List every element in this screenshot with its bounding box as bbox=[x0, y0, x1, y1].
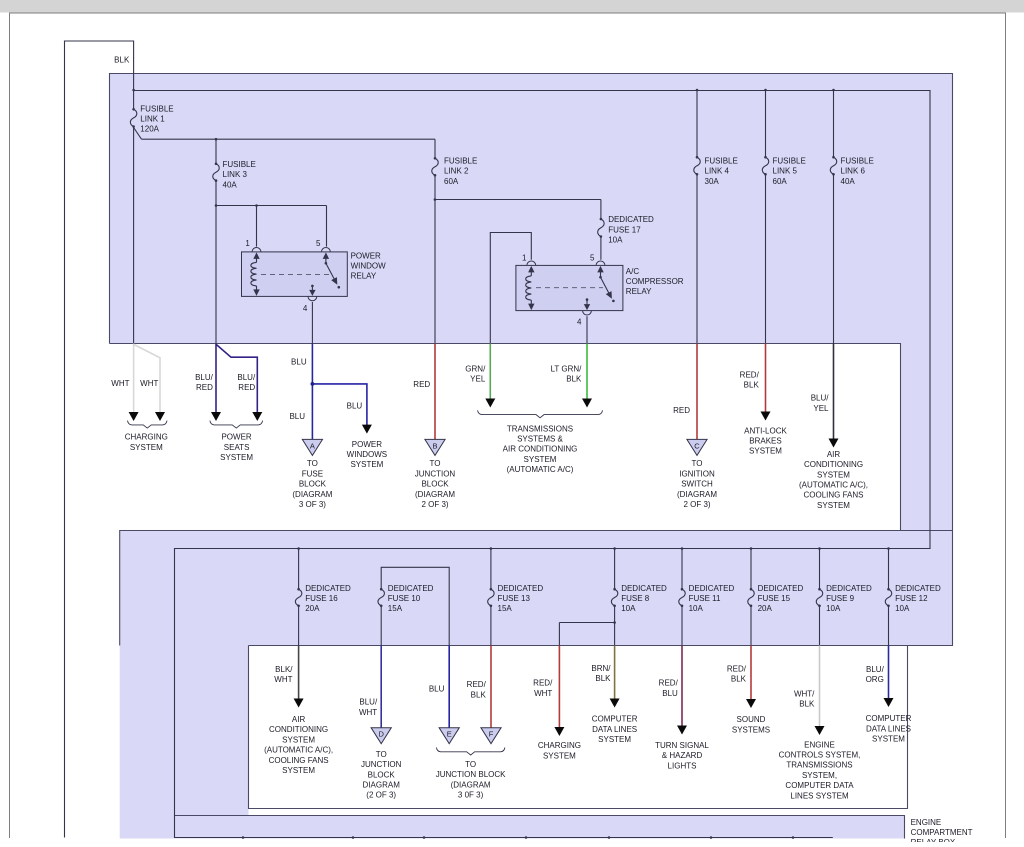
svg-text:SYSTEM: SYSTEM bbox=[220, 453, 253, 462]
svg-text:BLK: BLK bbox=[566, 375, 582, 384]
svg-text:5: 5 bbox=[590, 253, 595, 262]
svg-text:BLK/: BLK/ bbox=[275, 665, 293, 674]
svg-text:120A: 120A bbox=[140, 125, 159, 134]
svg-text:FUSE 16: FUSE 16 bbox=[305, 594, 338, 603]
svg-text:LINK 6: LINK 6 bbox=[841, 167, 866, 176]
svg-text:RED: RED bbox=[673, 406, 690, 415]
svg-text:BLK: BLK bbox=[595, 674, 611, 683]
svg-text:FUSE 12: FUSE 12 bbox=[895, 594, 928, 603]
svg-text:FUSE 10: FUSE 10 bbox=[388, 594, 421, 603]
svg-text:FUSE 9: FUSE 9 bbox=[826, 594, 855, 603]
svg-text:CHARGING: CHARGING bbox=[538, 741, 581, 750]
svg-text:WHT: WHT bbox=[534, 689, 552, 698]
svg-text:WHT/: WHT/ bbox=[794, 689, 815, 698]
svg-text:IGNITION: IGNITION bbox=[679, 469, 715, 478]
svg-text:4: 4 bbox=[303, 304, 308, 313]
svg-text:A/C: A/C bbox=[626, 267, 640, 276]
svg-text:10A: 10A bbox=[689, 604, 704, 613]
svg-text:AIR: AIR bbox=[292, 715, 306, 724]
svg-text:(AUTOMATIC A/C),: (AUTOMATIC A/C), bbox=[264, 746, 333, 755]
svg-text:FUSE 11: FUSE 11 bbox=[689, 594, 721, 603]
svg-text:FUSE: FUSE bbox=[302, 469, 323, 478]
svg-text:40A: 40A bbox=[223, 180, 238, 189]
svg-text:CONDITIONING: CONDITIONING bbox=[804, 460, 863, 469]
svg-text:DEDICATED: DEDICATED bbox=[895, 584, 941, 593]
svg-text:(DIAGRAM: (DIAGRAM bbox=[415, 490, 455, 499]
svg-text:RED/: RED/ bbox=[467, 680, 487, 689]
svg-text:RED/: RED/ bbox=[533, 679, 553, 688]
svg-text:FUSIBLE: FUSIBLE bbox=[773, 156, 806, 165]
svg-text:SYSTEM: SYSTEM bbox=[282, 766, 315, 775]
svg-text:LINK 4: LINK 4 bbox=[705, 167, 730, 176]
svg-text:(AUTOMATIC A/C): (AUTOMATIC A/C) bbox=[507, 465, 574, 474]
svg-text:1: 1 bbox=[245, 239, 250, 248]
svg-text:BLK: BLK bbox=[471, 690, 487, 699]
svg-text:SYSTEM: SYSTEM bbox=[350, 460, 383, 469]
svg-text:WINDOWS: WINDOWS bbox=[347, 450, 387, 459]
svg-text:DEDICATED: DEDICATED bbox=[689, 584, 735, 593]
svg-text:DEDICATED: DEDICATED bbox=[388, 584, 434, 593]
svg-text:BLU: BLU bbox=[291, 358, 307, 367]
svg-text:DEDICATED: DEDICATED bbox=[608, 215, 654, 224]
svg-text:15A: 15A bbox=[388, 604, 403, 613]
svg-text:WHT: WHT bbox=[274, 675, 292, 684]
svg-text:BLU/: BLU/ bbox=[359, 698, 378, 707]
svg-text:JUNCTION: JUNCTION bbox=[415, 469, 456, 478]
svg-text:FUSIBLE: FUSIBLE bbox=[841, 156, 874, 165]
svg-text:DEDICATED: DEDICATED bbox=[621, 584, 667, 593]
svg-text:(DIAGRAM: (DIAGRAM bbox=[451, 780, 491, 789]
svg-text:TO: TO bbox=[430, 459, 441, 468]
svg-text:CHARGING: CHARGING bbox=[125, 433, 168, 442]
svg-text:BLU/: BLU/ bbox=[195, 373, 214, 382]
svg-text:AIR CONDITIONING: AIR CONDITIONING bbox=[503, 445, 578, 454]
svg-text:4: 4 bbox=[577, 317, 582, 326]
svg-text:TURN SIGNAL: TURN SIGNAL bbox=[655, 741, 709, 750]
svg-text:SYSTEMS &: SYSTEMS & bbox=[517, 435, 563, 444]
svg-text:10A: 10A bbox=[826, 604, 841, 613]
svg-text:10A: 10A bbox=[895, 604, 910, 613]
svg-text:RELAY BOX: RELAY BOX bbox=[911, 838, 956, 842]
svg-text:AIR: AIR bbox=[827, 450, 841, 459]
svg-text:BLK: BLK bbox=[799, 700, 815, 709]
svg-text:BLK: BLK bbox=[731, 675, 747, 684]
svg-text:TO: TO bbox=[307, 459, 318, 468]
svg-text:YEL: YEL bbox=[813, 404, 829, 413]
svg-text:COOLING FANS: COOLING FANS bbox=[269, 756, 329, 765]
svg-text:TRANSMISSIONS: TRANSMISSIONS bbox=[786, 761, 852, 770]
svg-text:BLU: BLU bbox=[347, 402, 363, 411]
svg-text:COMPARTMENT: COMPARTMENT bbox=[911, 828, 973, 837]
svg-text:SYSTEM: SYSTEM bbox=[872, 735, 905, 744]
svg-text:CONTROLS SYSTEM,: CONTROLS SYSTEM, bbox=[779, 751, 861, 760]
svg-text:RELAY: RELAY bbox=[351, 272, 377, 281]
svg-text:B: B bbox=[432, 441, 437, 450]
svg-text:SWITCH: SWITCH bbox=[681, 480, 713, 489]
svg-text:DEDICATED: DEDICATED bbox=[305, 584, 351, 593]
svg-text:(DIAGRAM: (DIAGRAM bbox=[677, 490, 717, 499]
svg-text:BLOCK: BLOCK bbox=[421, 480, 449, 489]
svg-text:SYSTEM,: SYSTEM, bbox=[802, 771, 837, 780]
svg-text:15A: 15A bbox=[498, 604, 513, 613]
svg-text:BLU/: BLU/ bbox=[811, 394, 830, 403]
svg-text:3 OF 3): 3 OF 3) bbox=[299, 500, 326, 509]
svg-text:COMPRESSOR: COMPRESSOR bbox=[626, 277, 684, 286]
svg-text:LINK 5: LINK 5 bbox=[773, 167, 798, 176]
svg-text:WHT: WHT bbox=[111, 379, 129, 388]
svg-text:RED/: RED/ bbox=[727, 665, 747, 674]
svg-text:BLU/: BLU/ bbox=[866, 665, 885, 674]
svg-text:POWER: POWER bbox=[221, 433, 251, 442]
svg-text:JUNCTION: JUNCTION bbox=[361, 760, 402, 769]
svg-text:FUSIBLE: FUSIBLE bbox=[705, 156, 738, 165]
svg-text:F: F bbox=[489, 730, 494, 739]
svg-text:1: 1 bbox=[522, 253, 527, 262]
svg-text:SYSTEMS: SYSTEMS bbox=[732, 725, 770, 734]
svg-text:RED: RED bbox=[413, 380, 430, 389]
svg-text:FUSE 17: FUSE 17 bbox=[608, 225, 641, 234]
svg-text:TO: TO bbox=[376, 750, 387, 759]
svg-text:POWER: POWER bbox=[351, 251, 381, 260]
svg-text:BLU/: BLU/ bbox=[237, 373, 256, 382]
svg-text:COMPUTER: COMPUTER bbox=[592, 715, 638, 724]
svg-text:BLK: BLK bbox=[744, 381, 760, 390]
svg-text:20A: 20A bbox=[758, 604, 773, 613]
svg-text:COOLING FANS: COOLING FANS bbox=[803, 491, 863, 500]
svg-text:JUNCTION BLOCK: JUNCTION BLOCK bbox=[436, 770, 506, 779]
svg-text:WINDOW: WINDOW bbox=[351, 262, 387, 271]
svg-text:60A: 60A bbox=[444, 177, 459, 186]
svg-text:2 OF 3): 2 OF 3) bbox=[683, 500, 710, 509]
svg-text:TO: TO bbox=[692, 459, 703, 468]
svg-text:GRN/: GRN/ bbox=[465, 364, 486, 373]
svg-text:LINES SYSTEM: LINES SYSTEM bbox=[790, 791, 849, 800]
svg-text:60A: 60A bbox=[773, 177, 788, 186]
svg-text:SEATS: SEATS bbox=[224, 443, 250, 452]
svg-text:SOUND: SOUND bbox=[737, 715, 766, 724]
svg-text:RED: RED bbox=[196, 383, 213, 392]
svg-text:BLU: BLU bbox=[429, 685, 445, 694]
svg-text:E: E bbox=[447, 730, 452, 739]
svg-text:ENGINE: ENGINE bbox=[911, 818, 942, 827]
svg-text:LINK 2: LINK 2 bbox=[444, 167, 469, 176]
svg-text:SYSTEM: SYSTEM bbox=[543, 751, 576, 760]
svg-text:30A: 30A bbox=[705, 177, 720, 186]
svg-text:FUSIBLE: FUSIBLE bbox=[140, 104, 173, 113]
svg-text:BRAKES: BRAKES bbox=[749, 437, 781, 446]
svg-text:40A: 40A bbox=[841, 177, 856, 186]
svg-text:ORG: ORG bbox=[866, 675, 884, 684]
svg-text:LIGHTS: LIGHTS bbox=[668, 761, 697, 770]
svg-text:& HAZARD: & HAZARD bbox=[662, 751, 703, 760]
svg-text:LT GRN/: LT GRN/ bbox=[551, 364, 583, 373]
svg-text:10A: 10A bbox=[608, 236, 623, 245]
svg-text:ENGINE: ENGINE bbox=[804, 740, 835, 749]
svg-text:RED: RED bbox=[238, 383, 255, 392]
svg-text:WHT: WHT bbox=[359, 708, 377, 717]
svg-text:SYSTEM: SYSTEM bbox=[817, 470, 850, 479]
svg-text:10A: 10A bbox=[621, 604, 636, 613]
svg-text:2 OF 3): 2 OF 3) bbox=[421, 500, 448, 509]
svg-text:DEDICATED: DEDICATED bbox=[758, 584, 804, 593]
svg-text:LINK 3: LINK 3 bbox=[223, 170, 248, 179]
svg-text:DEDICATED: DEDICATED bbox=[498, 584, 544, 593]
svg-text:BLU: BLU bbox=[662, 689, 678, 698]
svg-text:D: D bbox=[378, 730, 384, 739]
svg-text:SYSTEM: SYSTEM bbox=[130, 443, 163, 452]
svg-text:BLOCK: BLOCK bbox=[368, 770, 396, 779]
svg-text:POWER: POWER bbox=[352, 440, 382, 449]
svg-text:LINK 1: LINK 1 bbox=[140, 115, 165, 124]
svg-text:C: C bbox=[694, 441, 700, 450]
svg-text:DEDICATED: DEDICATED bbox=[826, 584, 872, 593]
svg-text:CONDITIONING: CONDITIONING bbox=[269, 725, 328, 734]
svg-text:FUSIBLE: FUSIBLE bbox=[223, 160, 256, 169]
svg-text:SYSTEM: SYSTEM bbox=[817, 501, 850, 510]
svg-text:COMPUTER: COMPUTER bbox=[866, 714, 912, 723]
svg-text:(AUTOMATIC A/C),: (AUTOMATIC A/C), bbox=[799, 481, 868, 490]
svg-text:5: 5 bbox=[316, 239, 321, 248]
svg-text:BLOCK: BLOCK bbox=[299, 480, 327, 489]
svg-text:YEL: YEL bbox=[470, 375, 486, 384]
svg-text:20A: 20A bbox=[305, 604, 320, 613]
svg-text:COMPUTER DATA: COMPUTER DATA bbox=[785, 781, 854, 790]
svg-text:WHT: WHT bbox=[140, 379, 158, 388]
svg-text:FUSE 8: FUSE 8 bbox=[621, 594, 650, 603]
svg-text:RED/: RED/ bbox=[740, 370, 760, 379]
svg-text:SYSTEM: SYSTEM bbox=[282, 735, 315, 744]
svg-text:SYSTEM: SYSTEM bbox=[598, 735, 631, 744]
svg-text:SYSTEM: SYSTEM bbox=[524, 455, 557, 464]
svg-text:DATA LINES: DATA LINES bbox=[592, 725, 637, 734]
svg-text:SYSTEM: SYSTEM bbox=[749, 447, 782, 456]
svg-text:ANTI-LOCK: ANTI-LOCK bbox=[744, 426, 787, 435]
svg-text:DATA LINES: DATA LINES bbox=[866, 724, 911, 733]
svg-text:FUSE 15: FUSE 15 bbox=[758, 594, 791, 603]
svg-text:3 0F 3): 3 0F 3) bbox=[458, 791, 484, 800]
svg-text:(DIAGRAM: (DIAGRAM bbox=[292, 490, 332, 499]
svg-text:FUSIBLE: FUSIBLE bbox=[444, 156, 477, 165]
svg-text:(2 OF 3): (2 OF 3) bbox=[366, 791, 396, 800]
svg-text:TO: TO bbox=[465, 760, 476, 769]
svg-text:A: A bbox=[310, 441, 315, 450]
svg-text:RELAY: RELAY bbox=[626, 287, 652, 296]
svg-text:RED/: RED/ bbox=[659, 679, 679, 688]
svg-text:TRANSMISSIONS: TRANSMISSIONS bbox=[507, 424, 573, 433]
svg-text:DIAGRAM: DIAGRAM bbox=[363, 781, 401, 790]
svg-text:BLK: BLK bbox=[114, 55, 130, 64]
svg-text:FUSE 13: FUSE 13 bbox=[498, 594, 531, 603]
svg-text:BLU: BLU bbox=[289, 412, 305, 421]
svg-text:BRN/: BRN/ bbox=[591, 664, 611, 673]
